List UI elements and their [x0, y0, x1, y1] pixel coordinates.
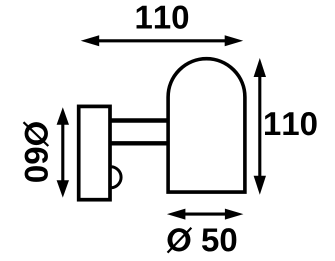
label 110 (right height dimension): [265, 112, 317, 135]
sensor bump on wall plate: [112, 167, 122, 188]
lamp head (dome cylinder): [168, 59, 245, 192]
label Ø60 (left diameter, rotated 90): [23, 122, 48, 182]
dimension arrow bottom (diameter 50): [167, 209, 244, 220]
label 110 (top width dimension): [137, 5, 189, 28]
dimension arrow right (height 110): [254, 58, 266, 195]
mounting arm (two horizontal bars): [110, 121, 169, 144]
wall mounting plate: [79, 106, 110, 199]
label Ø 50 (bottom diameter dimension): [168, 228, 237, 253]
dimension arrow top (width 110): [81, 35, 244, 46]
dimension arrow left (diameter 60): [57, 107, 69, 197]
